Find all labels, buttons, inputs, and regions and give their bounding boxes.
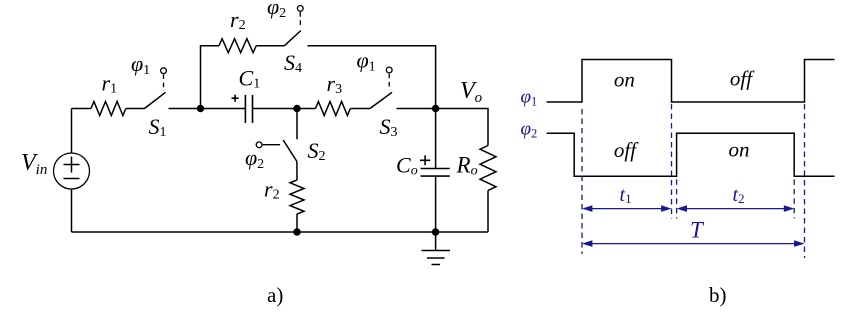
- waveform phi1: [547, 60, 835, 103]
- wire r3 to S3: [351, 108, 371, 110]
- switch S1: [145, 68, 167, 109]
- svg-text:on: on: [729, 138, 750, 162]
- wire S3 to node C: [397, 108, 436, 110]
- wire bottom rail: [72, 231, 489, 233]
- svg-text:φ1: φ1: [357, 48, 376, 75]
- switch S2: [256, 140, 297, 162]
- arrowhead T left: [582, 240, 592, 247]
- wire main left segment: [72, 108, 92, 110]
- arrowhead t2 right: [784, 205, 794, 212]
- wire Vin vertical bottom: [71, 189, 73, 232]
- resistor r3: [316, 102, 351, 116]
- node bottom ground: [433, 229, 439, 235]
- svg-text:S4: S4: [284, 50, 302, 76]
- svg-text:r3: r3: [327, 71, 343, 97]
- svg-text:Ro: Ro: [456, 153, 478, 179]
- svg-text:Co: Co: [396, 153, 418, 179]
- plus sign C1: [232, 95, 239, 102]
- arrowhead T right: [794, 240, 804, 247]
- arrowhead t1 left: [582, 205, 592, 212]
- svg-text:b): b): [709, 283, 727, 307]
- resistor r2 bottom: [290, 180, 304, 214]
- svg-text:on: on: [614, 68, 635, 92]
- capacitor C1: [245, 95, 252, 123]
- svg-text:Vo: Vo: [460, 78, 483, 106]
- node A: [198, 106, 204, 112]
- dashed line t1 start / T start: [581, 109, 583, 254]
- svg-text:C1: C1: [239, 66, 261, 92]
- svg-text:r2: r2: [264, 177, 280, 203]
- wire C1 to node B: [253, 108, 298, 110]
- svg-text:off: off: [614, 138, 639, 162]
- wire r2 to S4: [256, 45, 284, 47]
- wire S1 to node A: [169, 108, 201, 110]
- svg-text:φ1: φ1: [521, 87, 538, 109]
- svg-text:φ2: φ2: [245, 145, 264, 172]
- svg-text:a): a): [267, 283, 283, 307]
- arrowhead t1 right: [661, 205, 671, 212]
- wire S2 to r2 bottom: [296, 162, 298, 181]
- node C (Vo node): [433, 106, 439, 112]
- svg-text:t1: t1: [620, 184, 632, 206]
- wire node C to Co: [435, 109, 437, 169]
- wire Ro to bottom rail: [487, 191, 489, 233]
- plus sign Co: [420, 155, 430, 165]
- svg-text:φ2: φ2: [521, 119, 538, 141]
- dashed line t1 end: [671, 104, 673, 219]
- resistor Ro: [480, 146, 496, 191]
- node B: [294, 106, 300, 112]
- wire Vin vertical top: [71, 109, 73, 154]
- wire node C to Ro branch: [436, 109, 488, 146]
- svg-text:Vin: Vin: [21, 150, 47, 178]
- svg-text:S3: S3: [380, 114, 398, 140]
- arrow t1 line: [584, 208, 670, 210]
- arrowhead t2 left: [677, 205, 687, 212]
- svg-text:r1: r1: [102, 71, 118, 97]
- resistor r1: [91, 102, 126, 116]
- svg-text:off: off: [730, 67, 755, 91]
- dashed line t2 start: [676, 179, 678, 218]
- ground: [422, 232, 451, 265]
- svg-text:φ2: φ2: [267, 0, 286, 21]
- resistor r2 top: [219, 39, 256, 53]
- wire node B down to S2: [296, 109, 298, 140]
- svg-text:T: T: [690, 218, 705, 243]
- waveform phi2: [547, 133, 835, 176]
- wire r1 to S1: [126, 108, 145, 110]
- svg-text:S2: S2: [308, 138, 326, 164]
- wire Co to bottom rail: [435, 176, 437, 232]
- node bottom r2: [294, 229, 300, 235]
- wire node A to C1: [201, 108, 246, 110]
- arrow t2 line: [679, 208, 793, 210]
- wire S4 to node C vertical: [307, 46, 435, 109]
- switch S4: [284, 5, 303, 45]
- svg-text:S1: S1: [149, 114, 167, 140]
- dashed line t2 end: [793, 179, 795, 218]
- svg-text:t2: t2: [733, 184, 745, 206]
- voltage source Vin: [54, 153, 90, 189]
- wire r2 bottom to bottom rail: [296, 214, 298, 232]
- svg-text:r2: r2: [230, 7, 246, 33]
- switch S3: [370, 67, 392, 108]
- wire node A up and to r2 top: [201, 46, 220, 109]
- svg-text:φ1: φ1: [131, 51, 150, 78]
- arrow T line: [584, 243, 803, 245]
- capacitor Co: [421, 169, 450, 177]
- timing diagram: [547, 60, 835, 177]
- wire node B to r3: [297, 108, 316, 110]
- dashed line T end: [804, 104, 806, 258]
